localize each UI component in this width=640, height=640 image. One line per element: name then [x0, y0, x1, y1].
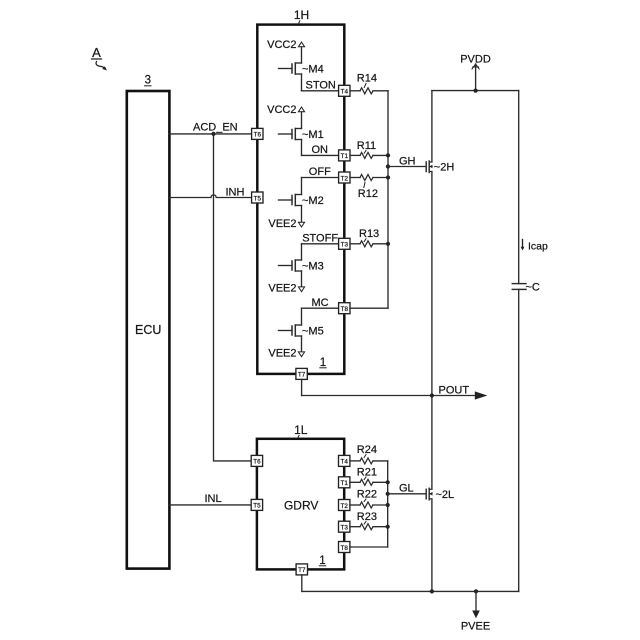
- wire STON to T4: [302, 74, 339, 91]
- PVDD terminal: [460, 54, 491, 93]
- wire OFF from T2: [302, 166, 339, 194]
- label 1 (1H chip): [320, 357, 326, 369]
- power stage frame: left edge (drain 2H): [431, 91, 433, 161]
- svg-text:T6: T6: [254, 132, 262, 139]
- high-side driver block 1H: [257, 8, 344, 374]
- terminal T5 (1L): [251, 499, 262, 510]
- svg-text:R24: R24: [357, 444, 377, 456]
- svg-text:R12: R12: [358, 188, 378, 200]
- PVEE terminal: [461, 589, 490, 632]
- svg-text:R13: R13: [359, 228, 379, 240]
- svg-text:T4: T4: [341, 89, 349, 96]
- svg-text:VEE2: VEE2: [268, 218, 296, 230]
- svg-text:3: 3: [145, 75, 151, 87]
- svg-text:STOFF: STOFF: [302, 232, 338, 244]
- terminal T7 (1L): [296, 564, 307, 575]
- resistor R11: [350, 140, 388, 158]
- terminal T3 (1H): [339, 238, 350, 249]
- low-side driver block 1L (GDRV): [257, 423, 344, 569]
- transistor M1: [279, 129, 324, 142]
- terminal T2 (1H): [339, 172, 350, 183]
- VEE2 rail (M5): [268, 336, 304, 360]
- terminal T6 (1H): [252, 128, 263, 139]
- wire GH: [388, 166, 425, 168]
- junction dot R21/bus: [386, 480, 390, 484]
- svg-text:~M1: ~M1: [302, 129, 324, 141]
- wire INL: [169, 504, 252, 506]
- terminal T4 (1L): [339, 455, 350, 466]
- svg-text:~M3: ~M3: [302, 261, 324, 273]
- resistor R23: [350, 511, 388, 530]
- svg-text:T2: T2: [341, 175, 349, 182]
- wire INH (with hop over branch): [169, 195, 252, 198]
- svg-text:T4: T4: [341, 459, 349, 466]
- svg-text:~M5: ~M5: [302, 326, 324, 338]
- svg-text:R22: R22: [357, 489, 377, 501]
- svg-text:POUT: POUT: [439, 384, 470, 396]
- junction dot R23/bus: [386, 525, 390, 529]
- resistor R14: [350, 73, 388, 94]
- junction dot R11/bus: [386, 153, 390, 157]
- junction dot ACD_EN: [211, 132, 215, 136]
- VEE2 rail (M2): [268, 206, 304, 231]
- terminal T8 (1H): [339, 303, 350, 314]
- svg-text:~2H: ~2H: [434, 162, 455, 174]
- junction dot GH/bus: [386, 164, 390, 168]
- power stage frame: left edge (2L source): [431, 500, 433, 592]
- svg-text:~M4: ~M4: [302, 64, 324, 76]
- svg-text:T7: T7: [298, 567, 306, 574]
- terminal T1 (1H): [339, 150, 350, 161]
- transistor 2H: [426, 161, 454, 174]
- svg-text:~2L: ~2L: [436, 489, 455, 501]
- svg-text:ACD_EN: ACD_EN: [193, 122, 238, 134]
- svg-text:R11: R11: [357, 140, 376, 152]
- node A label with leader arrow: [92, 45, 108, 71]
- wire STOFF from T3: [302, 232, 339, 260]
- svg-text:INL: INL: [205, 493, 222, 505]
- svg-text:~C: ~C: [526, 281, 540, 293]
- resistor R12: [350, 175, 388, 201]
- terminal T7 (1H): [296, 368, 307, 379]
- svg-text:T1: T1: [341, 153, 349, 160]
- power stage frame: left edge (2H source to POUT to 2L drain): [431, 173, 433, 489]
- svg-text:T8: T8: [341, 306, 349, 313]
- label 1 (GDRV chip): [319, 555, 325, 567]
- wire ACD_EN branch down to GDRV T6: [214, 134, 252, 461]
- VCC2 rail (M4): [267, 39, 304, 63]
- svg-text:GL: GL: [399, 483, 414, 495]
- svg-text:~M2: ~M2: [302, 195, 324, 207]
- svg-text:Icap: Icap: [528, 241, 548, 253]
- svg-text:T3: T3: [341, 242, 349, 249]
- svg-text:VCC2: VCC2: [267, 104, 296, 116]
- wire ON to T1: [302, 140, 339, 156]
- svg-text:T8: T8: [341, 545, 349, 552]
- terminal T5 (1H): [252, 192, 263, 203]
- transistor 2L: [426, 488, 454, 501]
- power stage frame: top edge: [432, 90, 519, 92]
- svg-text:T5: T5: [253, 503, 261, 510]
- resistor R24: [350, 444, 388, 464]
- svg-text:ON: ON: [312, 144, 329, 156]
- svg-text:T3: T3: [341, 525, 349, 532]
- transistor M5: [279, 325, 324, 338]
- svg-text:T1: T1: [341, 480, 349, 487]
- resistor R22: [350, 489, 388, 509]
- capacitor C: [512, 281, 540, 293]
- resistor R21: [350, 467, 388, 486]
- wire from T7 (1L) to PVEE rail: [302, 575, 434, 594]
- svg-text:R21: R21: [357, 467, 377, 479]
- svg-text:VCC2: VCC2: [267, 39, 296, 51]
- power stage frame: bottom edge: [432, 590, 519, 592]
- svg-text:R14: R14: [357, 73, 377, 85]
- power stage frame: right edge above capacitor: [518, 91, 520, 284]
- svg-text:1H: 1H: [294, 8, 309, 22]
- svg-text:STON: STON: [306, 79, 336, 91]
- transistor M3: [279, 260, 324, 273]
- power stage frame: right edge below capacitor: [518, 289, 520, 591]
- terminal T1 (1L): [339, 477, 350, 488]
- terminal T8 (1L): [339, 542, 350, 553]
- VEE2 rail (M3): [268, 271, 304, 295]
- wire MC from T8: [302, 297, 339, 325]
- svg-text:1: 1: [320, 357, 326, 369]
- svg-text:T2: T2: [341, 503, 349, 510]
- terminal T4 (1H): [339, 85, 350, 96]
- gate bus (low side): [387, 461, 389, 547]
- terminal T6 (1L): [251, 455, 262, 466]
- junction dot R12/bus: [386, 175, 390, 179]
- terminal T2 (1L): [339, 500, 350, 511]
- svg-text:1L: 1L: [294, 423, 308, 437]
- wire GL: [388, 493, 426, 495]
- wire ACD_EN: [169, 133, 252, 135]
- ECU block (ref 3): [127, 75, 170, 569]
- svg-text:1: 1: [319, 555, 325, 567]
- svg-text:GDRV: GDRV: [284, 499, 318, 513]
- svg-text:OFF: OFF: [309, 166, 331, 178]
- svg-text:ECU: ECU: [135, 323, 161, 337]
- gate bus (high side): [387, 91, 389, 308]
- svg-text:PVEE: PVEE: [461, 621, 490, 633]
- junction dot GL/bus: [386, 492, 390, 496]
- svg-text:T6: T6: [253, 459, 261, 466]
- svg-text:MC: MC: [312, 297, 329, 309]
- junction dot R22/bus: [386, 503, 390, 507]
- wire POUT from T7: [302, 379, 488, 399]
- current arrow Icap: [521, 240, 548, 253]
- svg-text:R23: R23: [357, 511, 377, 523]
- VCC2 rail (M1): [267, 104, 304, 129]
- svg-text:VEE2: VEE2: [268, 283, 296, 295]
- transistor M4: [279, 63, 324, 76]
- terminal T3 (1L): [339, 521, 350, 532]
- svg-text:INH: INH: [226, 186, 245, 198]
- svg-text:GH: GH: [399, 155, 416, 167]
- svg-text:T7: T7: [298, 372, 306, 379]
- wire T8 to gate bus: [350, 307, 388, 309]
- junction dot R13/bus: [386, 242, 390, 246]
- svg-text:VEE2: VEE2: [268, 348, 296, 360]
- svg-text:T5: T5: [254, 195, 262, 202]
- svg-text:A: A: [92, 45, 101, 60]
- resistor R13: [350, 228, 388, 247]
- wire T8 (1L) to gate bus: [350, 546, 388, 548]
- transistor M2: [279, 195, 324, 208]
